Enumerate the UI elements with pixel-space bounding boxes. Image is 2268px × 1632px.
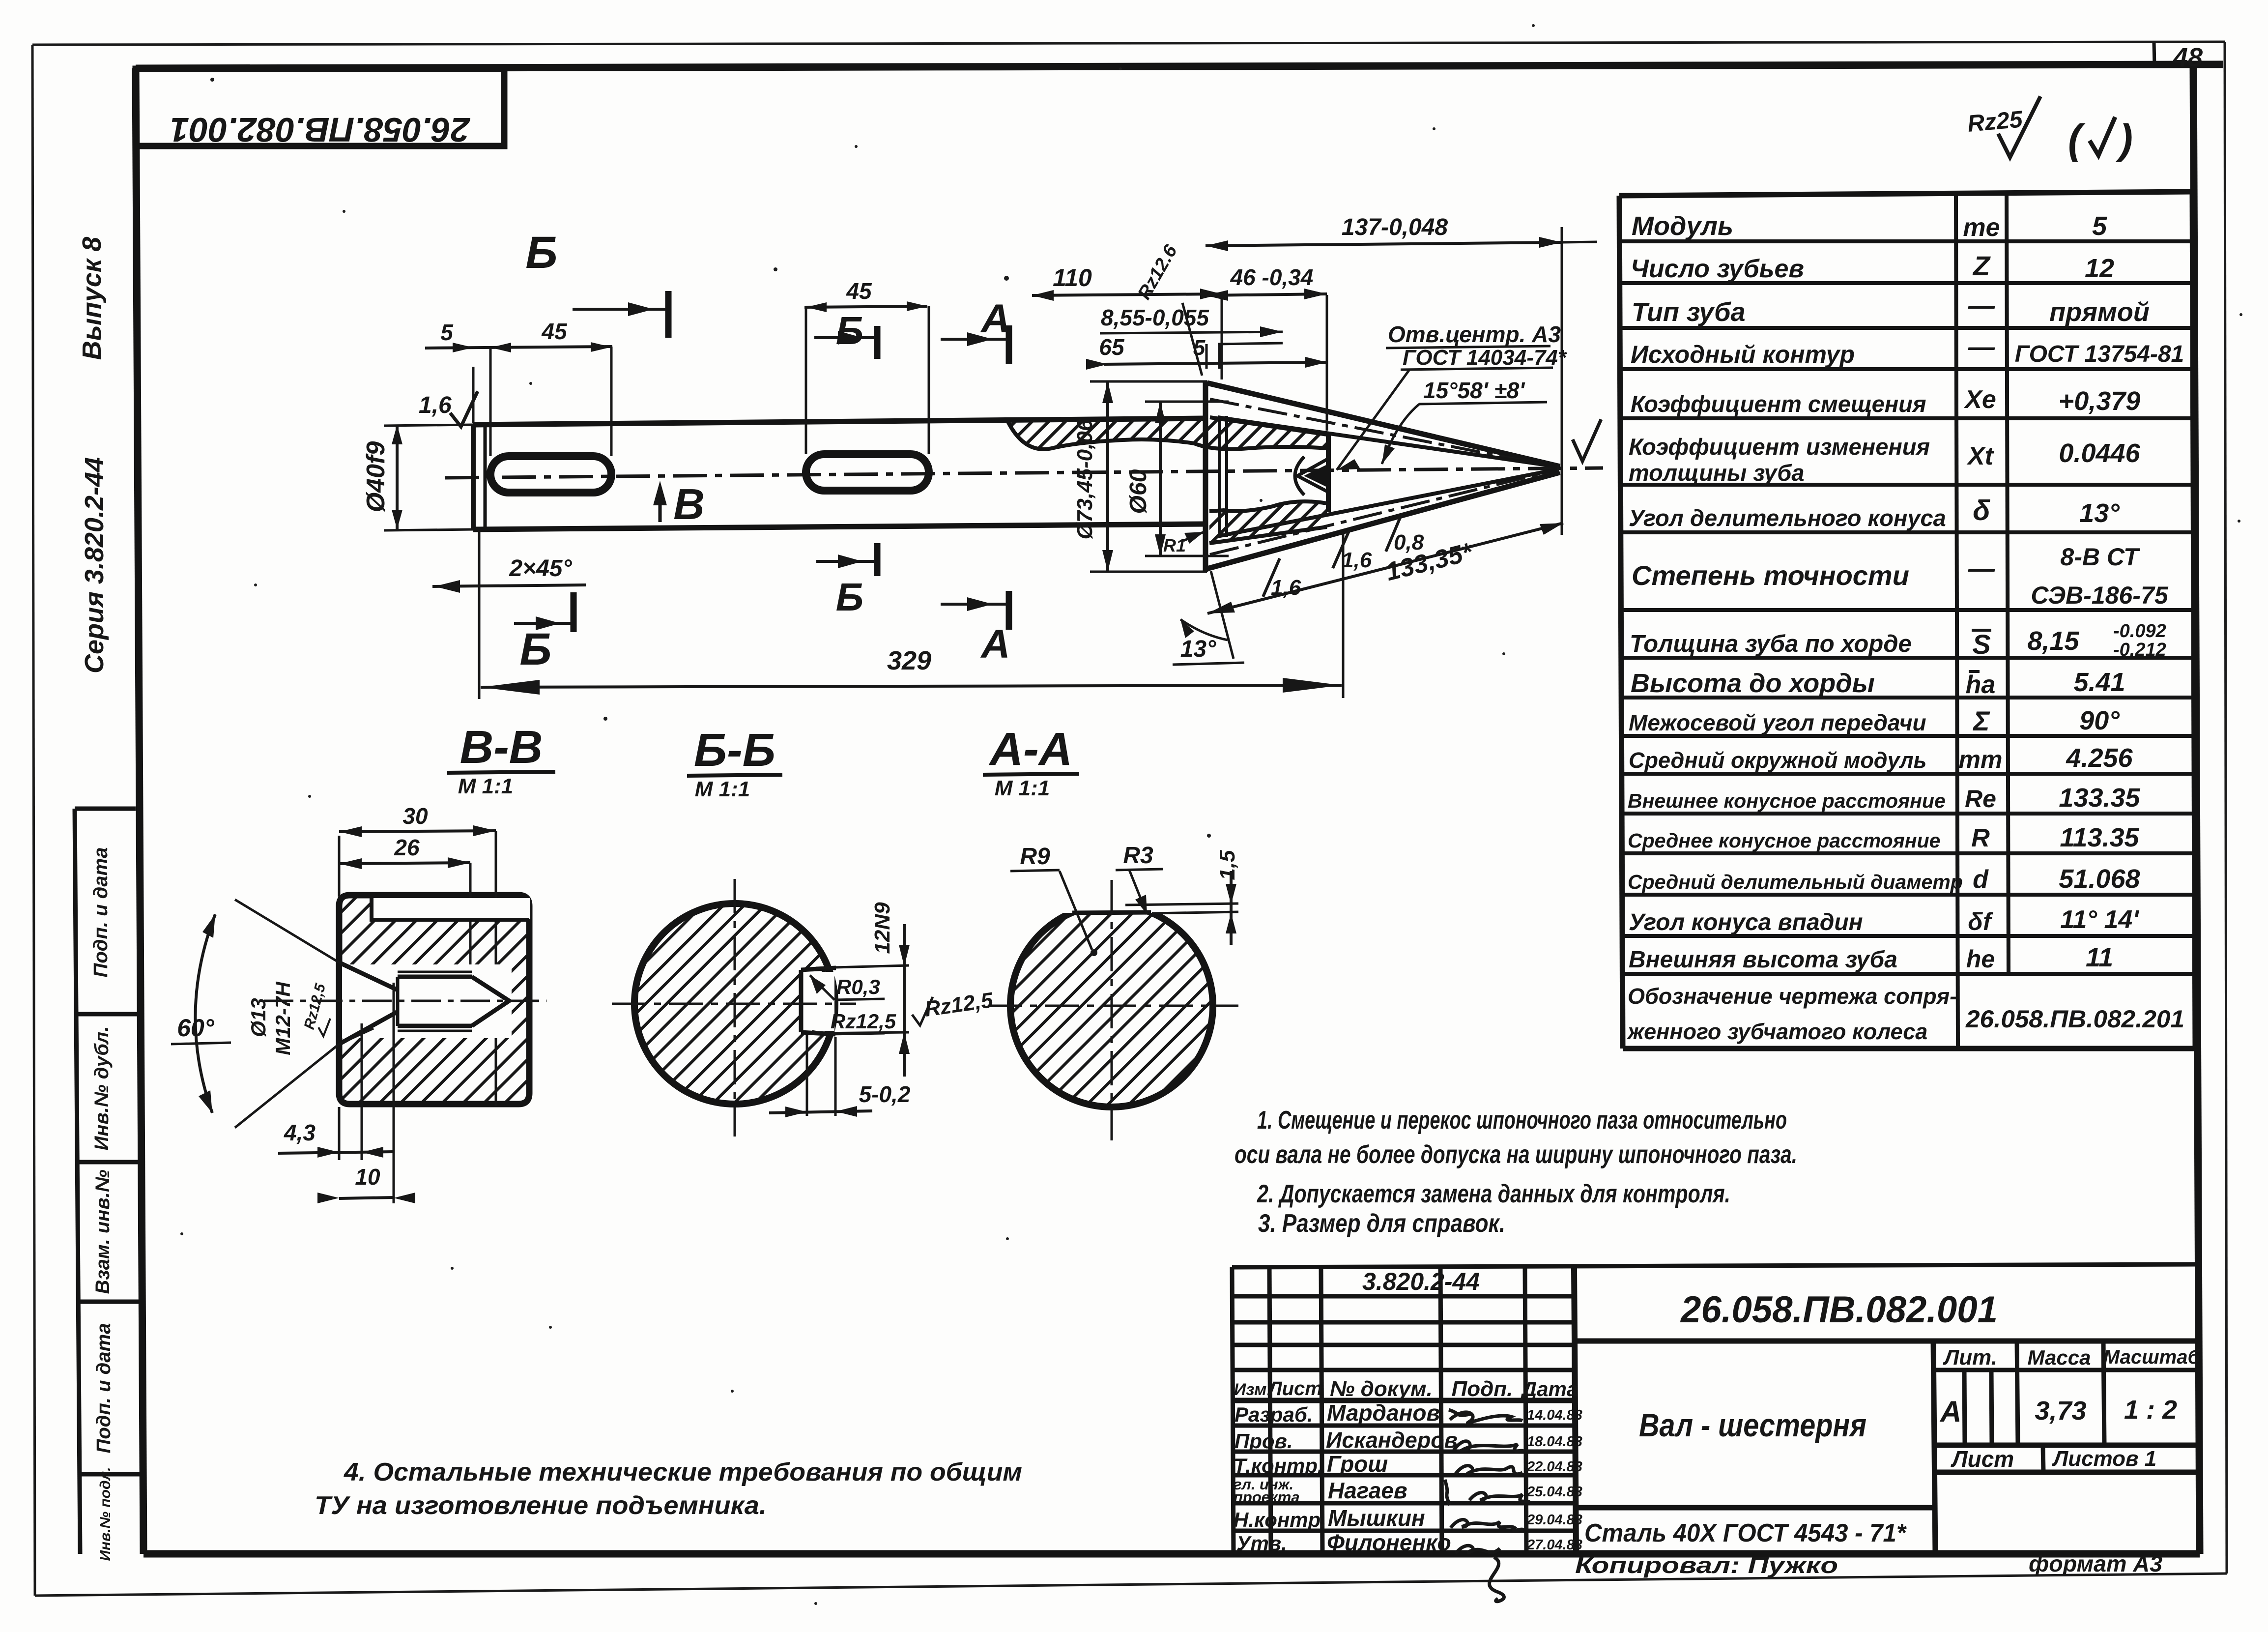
svg-text:ha: ha xyxy=(1966,670,1996,699)
svg-text:Дата: Дата xyxy=(1521,1377,1578,1400)
svg-text:Обозначение чертежа сопря-: Обозначение чертежа сопря- xyxy=(1628,984,1957,1009)
svg-text:Выпуск 8: Выпуск 8 xyxy=(77,237,107,360)
svg-text:d: d xyxy=(1973,865,1989,894)
svg-text:Вал - шестерня: Вал - шестерня xyxy=(1639,1407,1866,1443)
shaft top edge xyxy=(473,418,1206,425)
svg-text:18.04.83: 18.04.83 xyxy=(1527,1434,1582,1450)
dimension 45 (second keyway) xyxy=(804,278,929,454)
svg-text:26: 26 xyxy=(394,835,420,860)
svg-text:Подп. и дата: Подп. и дата xyxy=(90,847,112,978)
svg-text:Изм: Изм xyxy=(1234,1380,1267,1399)
table row 2: Число зубьев Z 12 xyxy=(1631,250,2114,283)
svg-text:46 -0,34: 46 -0,34 xyxy=(1230,264,1314,290)
svg-text:Средний делительный диаметр: Средний делительный диаметр xyxy=(1628,871,1963,893)
svg-text:Ø13: Ø13 xyxy=(247,998,270,1037)
svg-text:№ докум.: № докум. xyxy=(1330,1377,1433,1401)
B-B keyway slot (white) xyxy=(372,898,530,920)
svg-text:4. Остальные технические тре: 4. Остальные технические требования по о… xyxy=(344,1458,1022,1486)
svg-text:26.058.ПВ.082.001: 26.058.ПВ.082.001 xyxy=(170,111,471,149)
dimension 110 xyxy=(1032,264,1222,379)
cone distance dimension 133.35 xyxy=(1207,523,1563,613)
svg-text:11: 11 xyxy=(2086,943,2113,972)
pitch cone top dash-dot xyxy=(1210,399,1559,467)
svg-text:Б-Б: Б-Б xyxy=(694,724,775,776)
svg-text:113.35: 113.35 xyxy=(2060,823,2139,852)
А-А R9 callout xyxy=(1010,844,1097,956)
signatures squiggles xyxy=(1445,1410,1529,1602)
B-B dimension 10 xyxy=(317,983,415,1203)
svg-text:Rz12,5: Rz12,5 xyxy=(831,1010,896,1033)
section marker Б top-right xyxy=(814,309,877,359)
Б-Б centerlines xyxy=(734,879,736,1137)
B-B dimension 30 xyxy=(339,803,496,1106)
svg-text:mm: mm xyxy=(1959,746,2003,773)
svg-text:М12-7Н: М12-7Н xyxy=(271,981,294,1055)
Б-Б dimension 12N9 xyxy=(813,902,910,1077)
partial section hatched band along shaft top xyxy=(1008,417,1327,449)
shaft top extension left xyxy=(384,425,473,426)
Б-Б hatched circle xyxy=(634,903,835,1104)
svg-text:133.35: 133.35 xyxy=(2059,783,2140,813)
table row 6: Коэффициент изменения толщины зуба Xt 0.0446 xyxy=(1629,434,2141,486)
svg-text:45: 45 xyxy=(846,278,872,304)
svg-text:толщины зуба: толщины зуба xyxy=(1629,460,1805,486)
svg-text:26.058.ПВ.082.201: 26.058.ПВ.082.201 xyxy=(1965,1005,2184,1033)
dia 40f9 dimension xyxy=(362,425,402,529)
B-B threaded hole xyxy=(339,962,512,1044)
svg-text:СЭВ-186-75: СЭВ-186-75 xyxy=(2031,582,2168,609)
svg-text:3.820.2-44: 3.820.2-44 xyxy=(1362,1268,1480,1295)
B-B Rz12.5 small label xyxy=(301,981,330,1036)
shaft chamfer line xyxy=(484,425,487,529)
svg-text:Сталь 40Х ГОСТ 4543 - 71*: Сталь 40Х ГОСТ 4543 - 71* xyxy=(1584,1519,1907,1547)
svg-text:14.04.83: 14.04.83 xyxy=(1527,1407,1582,1423)
svg-text:женного зубчатого колеса: женного зубчатого колеса xyxy=(1626,1019,1927,1044)
notes block xyxy=(1234,1106,1797,1238)
svg-text:Внешнее конусное расстояние: Внешнее конусное расстояние xyxy=(1628,789,1946,812)
table row 16: Угол конуса впадин 11 14 xyxy=(1629,905,2139,935)
gear shoulder face xyxy=(1203,381,1208,572)
svg-text:прямой: прямой xyxy=(2049,297,2150,327)
svg-text:Лист: Лист xyxy=(1951,1446,2014,1472)
roughness Rz12.6 at shoulder xyxy=(1134,241,1202,376)
svg-text:Xt: Xt xyxy=(1966,442,1995,470)
svg-text:формат А3: формат А3 xyxy=(2029,1551,2162,1576)
svg-text:110: 110 xyxy=(1053,264,1092,291)
keyway slot 1 xyxy=(490,456,611,493)
svg-text:5: 5 xyxy=(2092,211,2107,241)
dimension 329 xyxy=(479,532,1343,699)
svg-text:А: А xyxy=(1939,1395,1961,1428)
face cone top edge xyxy=(1207,383,1560,466)
table row 17: Внешняя высота зуба he 11 xyxy=(1629,943,2113,973)
svg-text:Н.контр.: Н.контр. xyxy=(1234,1508,1326,1531)
roughness 1,6 on shaft top xyxy=(419,391,478,427)
svg-text:329: 329 xyxy=(887,646,931,675)
svg-text:δf: δf xyxy=(1968,908,1993,935)
dia 73.45 dimension xyxy=(1073,381,1207,572)
Копировал row xyxy=(1575,1551,2162,1578)
dimension 8.55-0.055 xyxy=(1100,305,1283,344)
title block grid xyxy=(1232,1264,2199,1554)
svg-text:Ø73,45-0,06: Ø73,45-0,06 xyxy=(1073,419,1097,539)
table row 1: Модуль me 5 xyxy=(1632,211,2107,242)
svg-text:Марданов: Марданов xyxy=(1327,1400,1440,1426)
svg-text:ГОСТ 13754-81: ГОСТ 13754-81 xyxy=(2015,341,2184,367)
svg-text:R0,3: R0,3 xyxy=(836,975,880,998)
svg-text:he: he xyxy=(1966,945,1995,973)
svg-text:В: В xyxy=(673,480,705,528)
svg-text:А-А: А-А xyxy=(989,723,1073,775)
table row 3: Тип зуба - прямой xyxy=(1632,291,2150,327)
dia 60 dimension xyxy=(1125,402,1229,556)
svg-text:Xe: Xe xyxy=(1963,385,1996,414)
top-left stamp box (inverted doc number) xyxy=(136,69,504,149)
svg-text:26.058.ПВ.082.001: 26.058.ПВ.082.001 xyxy=(1680,1289,1998,1331)
svg-text:Мышкин: Мышкин xyxy=(1328,1505,1425,1531)
svg-text:Средний окружной модуль: Средний окружной модуль xyxy=(1629,748,1926,773)
svg-text:Отв.центр. А3: Отв.центр. А3 xyxy=(1388,321,1561,347)
B-B hatched block xyxy=(339,895,529,1104)
svg-text:Коэффициент изменения: Коэффициент изменения xyxy=(1629,434,1930,460)
svg-text:Нагаев: Нагаев xyxy=(1328,1478,1407,1503)
svg-text:2. Допускается замена данных: 2. Допускается замена данных для контрол… xyxy=(1257,1180,1730,1208)
center hole callout xyxy=(1337,321,1567,470)
svg-text:8,55-0,055: 8,55-0,055 xyxy=(1101,305,1209,330)
face cone bottom edge xyxy=(1207,472,1560,569)
Лит Масса Масштаб header xyxy=(1939,1345,2200,1472)
svg-text:—: — xyxy=(1968,554,1995,583)
Б-Б R0.3 callout xyxy=(810,975,885,1000)
section title А-А xyxy=(983,723,1079,800)
svg-text:Т.контр.: Т.контр. xyxy=(1234,1454,1323,1477)
svg-text:8,15: 8,15 xyxy=(2027,626,2079,656)
dimension 137-0.048 xyxy=(1206,214,1597,251)
chamfer dimension 2x45 xyxy=(432,530,586,596)
Б-Б dimension 5-0.2 xyxy=(769,1035,911,1117)
svg-text:Rz25: Rz25 xyxy=(1966,106,2024,137)
shaft bottom edge xyxy=(473,524,1206,529)
А-А dimension 1.5 xyxy=(1125,850,1239,945)
svg-text:Б: Б xyxy=(519,624,551,674)
root cone bottom line xyxy=(1218,469,1557,536)
title block row: Утв Филоненко xyxy=(1236,1530,1582,1555)
svg-text:—: — xyxy=(1968,291,1995,321)
B-B 60 degree arc xyxy=(195,914,215,1113)
bottom hatched tooth band xyxy=(1209,501,1327,543)
svg-text:-0.212: -0.212 xyxy=(2113,640,2166,660)
svg-text:δ: δ xyxy=(1973,495,1990,526)
section marker А bottom xyxy=(941,591,1010,667)
svg-text:А: А xyxy=(980,622,1010,667)
svg-text:Толщина зуба по хорде: Толщина зуба по хорде xyxy=(1630,631,1912,657)
svg-text:3,73: 3,73 xyxy=(2035,1396,2086,1426)
svg-text:8-В СТ: 8-В СТ xyxy=(2060,543,2141,571)
svg-text:R3: R3 xyxy=(1123,843,1153,869)
svg-text:1,6: 1,6 xyxy=(419,392,452,418)
svg-text:Коэффициент смещения: Коэффициент смещения xyxy=(1631,391,1926,417)
svg-text:ТУ на изготовление подъемник: ТУ на изготовление подъемника. xyxy=(315,1491,767,1520)
svg-text:Искандеров: Искандеров xyxy=(1326,1428,1458,1453)
svg-text:Пров.: Пров. xyxy=(1234,1429,1293,1453)
table row 10: Высота до хорды ha 5.41 xyxy=(1631,668,2125,699)
svg-text:13°: 13° xyxy=(2079,498,2120,528)
svg-text:+0,379: +0,379 xyxy=(2059,386,2141,416)
page number cell 48 xyxy=(2154,43,2203,72)
svg-text:1,6: 1,6 xyxy=(1342,548,1372,572)
title block row: Гл.инж.проекта Нагаев xyxy=(1234,1476,1582,1506)
title block row: Разраб Марданов xyxy=(1234,1400,1582,1426)
left margin cells column xyxy=(75,809,142,1554)
title block row: Пров Искандеров xyxy=(1234,1428,1582,1453)
svg-text:Угол конуса впадин: Угол конуса впадин xyxy=(1629,909,1863,935)
table row 4: Исходный контур ГОСТ 13754-81 xyxy=(1631,332,2184,368)
svg-text:М 1:1: М 1:1 xyxy=(458,774,513,798)
B-B 60 degree construction lines xyxy=(235,900,339,962)
svg-text:Re: Re xyxy=(1965,785,1996,813)
svg-text:137-0,048: 137-0,048 xyxy=(1342,214,1448,240)
svg-text:Копировал: Пужко: Копировал: Пужко xyxy=(1575,1552,1838,1578)
svg-text:Масштаб: Масштаб xyxy=(2103,1346,2201,1368)
shaft bottom extension left xyxy=(384,529,473,530)
svg-text:4.256: 4.256 xyxy=(2066,743,2133,773)
svg-text:11° 14': 11° 14' xyxy=(2060,905,2139,934)
title block row: Т.контр Грош xyxy=(1234,1451,1582,1477)
roughness 0.8 xyxy=(1386,514,1424,554)
svg-text:Лит.: Лит. xyxy=(1943,1345,1997,1370)
cone base extension line xyxy=(1561,227,1563,535)
B-B dimension 26 xyxy=(339,835,470,1032)
gear parameter table grid xyxy=(1619,192,2195,1049)
svg-text:51.068: 51.068 xyxy=(2059,864,2140,894)
table row 18: Обозначение чертежа сопряженного колеса xyxy=(1626,984,2184,1044)
section marker Б bottom-left xyxy=(514,592,574,674)
svg-text:Подп. и дата: Подп. и дата xyxy=(93,1323,115,1454)
svg-text:22.04.83: 22.04.83 xyxy=(1526,1459,1582,1475)
svg-text:R9: R9 xyxy=(1020,844,1050,870)
svg-text:Исходный контур: Исходный контур xyxy=(1631,341,1855,368)
svg-text:Б: Б xyxy=(836,575,864,619)
svg-text:Число зубьев: Число зубьев xyxy=(1631,255,1804,283)
table row 7: Угол делительного конуса 13 xyxy=(1629,495,2120,531)
svg-text:65: 65 xyxy=(1099,334,1125,360)
B-B dimension 4.3 xyxy=(278,1023,393,1160)
svg-text:1,5: 1,5 xyxy=(1215,850,1239,880)
svg-text:Степень точности: Степень точности xyxy=(1632,560,1909,591)
Б-Б Rz12.5 with check xyxy=(912,988,995,1025)
Б-Б Rz12.5 callout xyxy=(812,1010,896,1034)
svg-text:45: 45 xyxy=(541,319,568,344)
svg-text:Лист: Лист xyxy=(1267,1378,1322,1399)
svg-text:Инв.№ дубл.: Инв.№ дубл. xyxy=(91,1026,113,1151)
table row 15: Средний делительный диаметр d 51.068 xyxy=(1628,864,2140,894)
svg-text:Ø60: Ø60 xyxy=(1125,469,1151,514)
svg-text:29.04.83: 29.04.83 xyxy=(1526,1512,1582,1528)
title block texts: revision header xyxy=(1234,1377,1578,1401)
svg-text:Масса: Масса xyxy=(2028,1346,2091,1369)
svg-text:Утв.: Утв. xyxy=(1236,1532,1287,1555)
svg-text:me: me xyxy=(1963,213,2000,242)
dimension 46-0.34 xyxy=(1206,264,1327,431)
section marker Б top-left xyxy=(525,228,668,338)
table row 13: Внешнее конусное расстояние Re 133.35 xyxy=(1628,783,2141,813)
svg-text:R1: R1 xyxy=(1163,535,1186,555)
svg-text:60°: 60° xyxy=(177,1014,215,1042)
section marker Б bottom-middle xyxy=(816,543,877,619)
А-А R3 callout xyxy=(1116,843,1163,914)
gear big end face xyxy=(1326,433,1331,512)
svg-text:S: S xyxy=(1972,629,1990,660)
gear groove lines xyxy=(1218,416,1221,537)
svg-text:0.0446: 0.0446 xyxy=(2059,438,2140,468)
svg-text:В-В: В-В xyxy=(460,721,543,773)
svg-text:5.41: 5.41 xyxy=(2073,668,2125,697)
svg-text:10: 10 xyxy=(355,1164,380,1190)
svg-text:М 1:1: М 1:1 xyxy=(695,777,750,801)
svg-text:Филоненко: Филоненко xyxy=(1327,1530,1451,1555)
Б-Б keyway notch (white) xyxy=(801,968,836,1034)
svg-text:Межосевой угол передачи: Межосевой угол передачи xyxy=(1629,710,1926,735)
title block row: Н.контр Мышкин xyxy=(1234,1505,1582,1531)
keyway slot 2 xyxy=(806,454,929,491)
svg-text:-0.092: -0.092 xyxy=(2113,621,2166,641)
roughness 1,6 lower left xyxy=(1263,558,1301,600)
svg-text:5: 5 xyxy=(440,320,454,345)
svg-text:Высота до хорды: Высота до хорды xyxy=(1631,669,1875,698)
section title Б-Б xyxy=(687,724,782,801)
table row 8: Степень точности 8-В СТ СЭВ-186-75 xyxy=(1632,543,2169,609)
svg-text:1 : 2: 1 : 2 xyxy=(2124,1395,2177,1425)
svg-text:Модуль: Модуль xyxy=(1632,211,1733,241)
svg-text:Б: Б xyxy=(525,228,557,278)
radius R1 label xyxy=(1163,532,1204,555)
note 4 bottom left xyxy=(315,1458,1022,1520)
table row 12: Средний окружной модуль mm 4.256 xyxy=(1629,743,2133,773)
svg-text:13°: 13° xyxy=(1180,636,1216,662)
svg-text:48: 48 xyxy=(2173,43,2203,72)
А-А centerlines xyxy=(1111,880,1113,1140)
svg-text:90°: 90° xyxy=(2079,706,2120,735)
svg-text:А: А xyxy=(980,296,1010,341)
table row 11: Межосевой угол передачи 90 xyxy=(1629,705,2120,736)
svg-text:Серия 3.820.2-44: Серия 3.820.2-44 xyxy=(80,457,109,673)
svg-text:27.04.83: 27.04.83 xyxy=(1526,1537,1582,1553)
svg-text:Подп.: Подп. xyxy=(1452,1377,1513,1401)
table row 9: Толщина зуба по хорде S 8,15 xyxy=(1630,621,2166,660)
svg-text:—: — xyxy=(1968,332,1995,362)
svg-text:15°58' ±8': 15°58' ±8' xyxy=(1423,378,1525,403)
section title В-В xyxy=(447,721,555,798)
view marker В xyxy=(653,480,705,528)
shaft left end face xyxy=(471,425,476,529)
svg-text:Взам. инв.№: Взам. инв.№ xyxy=(92,1169,114,1294)
svg-text:Внешняя высота зуба: Внешняя высота зуба xyxy=(1629,947,1897,973)
svg-text:Тип зуба: Тип зуба xyxy=(1632,297,1746,327)
svg-text:R: R xyxy=(1971,824,1990,852)
B-B centerline xyxy=(264,1000,546,1002)
svg-text:12N9: 12N9 xyxy=(870,902,894,954)
svg-text:Инв.№ подл.: Инв.№ подл. xyxy=(97,1467,114,1561)
table row 14: Среднее конусное расстояние R 113.35 xyxy=(1628,823,2140,852)
svg-text:Б: Б xyxy=(836,309,864,352)
section marker А top xyxy=(941,296,1010,364)
svg-text:1. Смещение и перекос шпоночн: 1. Смещение и перекос шпоночного паза от… xyxy=(1257,1106,1787,1135)
roughness check on face cone xyxy=(1573,419,1601,461)
svg-text:3. Размер для справок.: 3. Размер для справок. xyxy=(1258,1209,1505,1238)
table row 5: Коэффициент смещения Xe +0,379 xyxy=(1631,385,2140,417)
dimension 5 and 45 top left xyxy=(425,319,612,456)
root cone top line xyxy=(1218,417,1557,466)
pitch cone bottom dash-dot xyxy=(1210,469,1559,554)
B-B 60 degree label xyxy=(171,1014,231,1044)
shaft axis centerline xyxy=(445,468,1603,478)
svg-text:ГОСТ 14034-74*: ГОСТ 14034-74* xyxy=(1403,346,1567,370)
center drill hole A3 xyxy=(1295,457,1327,495)
angle 15 58 callout xyxy=(1382,378,1547,464)
svg-text:Z: Z xyxy=(1972,250,1991,281)
svg-text:Листов 1: Листов 1 xyxy=(2052,1447,2156,1471)
roughness 1,6 lower mid xyxy=(1333,530,1372,572)
svg-text:М 1:1: М 1:1 xyxy=(995,776,1050,800)
svg-text:проекта: проекта xyxy=(1234,1488,1300,1506)
svg-text:Σ: Σ xyxy=(1972,705,1990,736)
svg-text:Разраб.: Разраб. xyxy=(1234,1403,1313,1426)
svg-text:Ø40f9: Ø40f9 xyxy=(362,441,390,513)
svg-text:5-0,2: 5-0,2 xyxy=(859,1081,911,1107)
svg-text:Грош: Грош xyxy=(1327,1451,1388,1477)
svg-text:25.04.83: 25.04.83 xyxy=(1526,1484,1582,1500)
svg-text:30: 30 xyxy=(402,803,428,829)
svg-text:4,3: 4,3 xyxy=(284,1120,316,1145)
roughness mark Rz25 top right xyxy=(1966,96,2133,162)
svg-text:2×45°: 2×45° xyxy=(509,555,572,582)
svg-text:12: 12 xyxy=(2085,254,2114,283)
svg-text:Среднее конусное расстояние: Среднее конусное расстояние xyxy=(1628,829,1940,852)
svg-text:оси вала не более допуска: оси вала не более допуска на ширину шпон… xyxy=(1234,1140,1797,1169)
angle 13 dimension xyxy=(1173,571,1244,665)
dimension 65 and 5 xyxy=(1086,334,1328,370)
svg-text:Угол делительного конуса: Угол делительного конуса xyxy=(1629,505,1946,531)
А-А hatched circle with flat xyxy=(1010,899,1213,1107)
